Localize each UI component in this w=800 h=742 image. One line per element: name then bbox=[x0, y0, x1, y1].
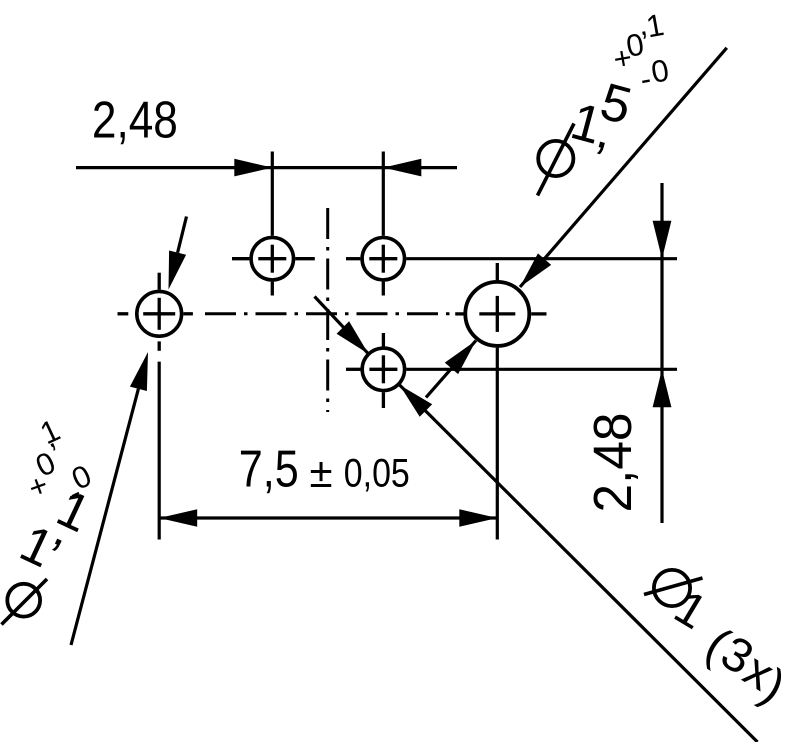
arrow top-dim pointing right bbox=[234, 159, 272, 177]
wire: crosshair arm + extension to right dimension (top row) bbox=[406, 257, 677, 260]
hole left: tick right bbox=[183, 312, 193, 315]
hole big: internal cross bbox=[479, 312, 515, 315]
hole bottom: tick bottom bbox=[382, 392, 385, 408]
centerline vertical (dash-dot) bbox=[326, 208, 329, 412]
svg-text:2,48: 2,48 bbox=[583, 413, 643, 513]
hole top-right: tick bottom bbox=[382, 282, 385, 296]
arrow d1 stub (points down-right at bottom hole) bbox=[337, 321, 369, 354]
wire: crosshair arm + extension to right dimension (bottom row) bbox=[406, 368, 677, 371]
hole top-left: tick right bbox=[295, 257, 315, 260]
hole left: tick left bbox=[118, 312, 129, 315]
hole top-right: internal cross bbox=[369, 257, 397, 260]
hole big: tick left bbox=[455, 312, 463, 315]
svg-text:2,48: 2,48 bbox=[92, 92, 178, 150]
leader line diameter 1 (to label bottom-right) bbox=[400, 385, 758, 742]
label diameter 1,5 with tolerance bbox=[538, 6, 672, 195]
svg-text:±: ± bbox=[310, 449, 333, 496]
svg-text:7,5: 7,5 bbox=[239, 441, 299, 499]
label diameter 1,1 with tolerance bbox=[2, 412, 99, 624]
hole left: tick bottom bbox=[158, 341, 161, 350]
hole left: internal cross bbox=[143, 312, 175, 315]
label diameter 1 (3x) bbox=[644, 570, 794, 714]
leader line diameter 1,5 bbox=[520, 48, 727, 287]
leader line diameter 1,1 (lower, to label) bbox=[71, 389, 138, 645]
svg-text:0,05: 0,05 bbox=[344, 452, 410, 496]
hole bottom: internal cross bbox=[369, 368, 397, 371]
arrow d1,1 far (points up at left hole) bbox=[130, 352, 148, 391]
arrow d1,1 near (points down at left hole) bbox=[169, 251, 187, 290]
leader stub diameter 1 (upper-left) bbox=[315, 297, 369, 354]
hole bottom: tick left bbox=[346, 368, 361, 371]
hole top-right: tick left bbox=[346, 257, 360, 260]
hole left (1.1 mm): ring bbox=[137, 291, 182, 336]
hole top-left (1 mm): ring bbox=[251, 238, 293, 280]
hole bottom: tick top bbox=[382, 333, 385, 347]
arrow 7,5 pointing left bbox=[159, 509, 197, 527]
wire: top dimension line 2,48 bbox=[76, 166, 457, 169]
hole top-left: tick bottom bbox=[271, 282, 274, 296]
wire: extension line above hole top-left bbox=[271, 152, 274, 236]
wire: left extension line down to 7,5 dimension bbox=[158, 362, 161, 540]
arrow top-dim pointing left bbox=[383, 159, 421, 177]
arrow right-dim pointing up bbox=[653, 369, 672, 407]
wire: 7,5 dimension line bbox=[159, 516, 497, 519]
leader stub diameter 1,1 (upper) bbox=[178, 217, 187, 253]
wire: big-hole extension down to 7,5 dimension bbox=[496, 348, 499, 540]
arrow d1,5 far (points up-right at big hole) bbox=[445, 341, 476, 375]
hole top-left: tick left bbox=[232, 257, 249, 260]
arrow d1 leader (points up-left at bottom hole) bbox=[400, 385, 433, 417]
hole top-right (1 mm): ring bbox=[362, 238, 404, 280]
hole big: tick top bbox=[496, 263, 499, 280]
hole left: tick top bbox=[158, 273, 161, 290]
hole top-left: internal cross bbox=[258, 257, 286, 260]
arrow right-dim pointing down bbox=[653, 221, 672, 259]
centerline horizontal (dash-dot) bbox=[205, 312, 455, 315]
arrow d1,5 near (points down-left at big hole) bbox=[520, 253, 551, 287]
hole big: tick right bbox=[531, 312, 546, 315]
wire: extension line above hole top-right bbox=[382, 152, 385, 236]
leader tail far side diameter 1,5 bbox=[426, 341, 476, 398]
arrow 7,5 pointing right bbox=[459, 509, 497, 527]
wire: right vertical dimension line bbox=[660, 183, 663, 523]
hole big (1.5 mm): ring bbox=[465, 282, 529, 346]
hole bottom (1 mm): ring bbox=[362, 348, 404, 390]
